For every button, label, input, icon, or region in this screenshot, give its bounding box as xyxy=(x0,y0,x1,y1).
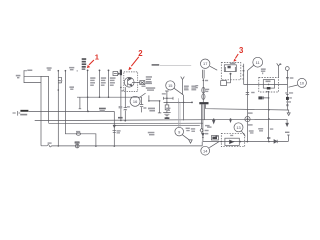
svg-text:3: 3 xyxy=(239,46,244,55)
connector J1 left xyxy=(13,111,21,116)
crystal Y1 box xyxy=(113,72,118,76)
callout circle 13 xyxy=(234,123,243,132)
lamp L2 xyxy=(245,117,250,122)
capacitor C1 xyxy=(58,77,61,83)
labels right of Q1 xyxy=(145,83,152,85)
connector bracket pins xyxy=(242,64,243,85)
wire vertical bus 4 xyxy=(120,69,122,120)
wire W97 xyxy=(77,97,142,109)
red annotations xyxy=(87,46,244,70)
dashed box around Q1 xyxy=(124,72,138,92)
callout circle 11 xyxy=(253,57,263,67)
svg-text:11: 11 xyxy=(256,60,260,65)
connector band xyxy=(199,102,208,104)
wire vertical bus 1 xyxy=(57,71,59,146)
resistor chain R3 xyxy=(108,70,110,97)
lamp chain right xyxy=(285,67,289,71)
red arrow 1 xyxy=(89,60,94,65)
wire below Q1 with capacitor xyxy=(124,87,127,121)
antenna Y2 xyxy=(181,77,185,95)
arrow on corner vertical xyxy=(113,125,115,127)
motor symbol xyxy=(224,65,236,72)
wire vertical right chain xyxy=(267,92,270,142)
callout circle 15 xyxy=(166,81,175,90)
IC U2 xyxy=(263,80,274,89)
diode D3 xyxy=(258,96,262,99)
arrow down small at 230.5 xyxy=(230,120,232,122)
left labels xyxy=(16,75,21,77)
wire bottom rail xyxy=(41,142,202,146)
node dots bus tops xyxy=(58,70,60,72)
wire vertical from 11 xyxy=(246,71,248,142)
wire rail A left xyxy=(29,111,115,146)
callout circle 9 xyxy=(175,127,184,136)
wire rail C2 xyxy=(114,124,200,126)
node bracket 12V xyxy=(149,95,161,113)
junction dot on rail A xyxy=(87,111,89,113)
junction dots rails xyxy=(213,118,215,120)
tiny text label blobs xyxy=(16,58,294,144)
ground arrow 2 xyxy=(286,119,288,123)
circle numbers xyxy=(133,60,305,153)
ground arrow 1 xyxy=(287,113,290,116)
dashed box motor xyxy=(221,63,241,80)
wire rail B xyxy=(35,119,287,120)
svg-text:9: 9 xyxy=(178,129,180,134)
resistor chain R1 xyxy=(87,70,89,112)
diamond xyxy=(200,128,203,132)
lamp symbol on bottom rail xyxy=(75,144,79,148)
resistor R9 box xyxy=(165,105,169,110)
svg-text:1: 1 xyxy=(95,52,100,61)
wire gray vertical xyxy=(179,98,180,127)
svg-text:14: 14 xyxy=(203,148,208,153)
fuse box below xyxy=(221,81,227,86)
callout circle 16 xyxy=(130,96,140,106)
svg-text:16: 16 xyxy=(133,99,137,104)
capacitor on W97 end xyxy=(140,97,143,112)
component box above wire xyxy=(211,136,218,140)
red arrow 2 xyxy=(131,57,139,66)
junction dots on bottom rail xyxy=(58,145,60,147)
svg-text:17: 17 xyxy=(203,61,207,66)
wire triple drop 3 xyxy=(204,104,206,119)
resistor bridge xyxy=(164,97,174,100)
callout circle 17 xyxy=(201,59,210,68)
svg-text:13: 13 xyxy=(236,125,240,130)
fuse oval 2 xyxy=(202,94,205,100)
svg-text:2: 2 xyxy=(138,49,143,58)
bottom wire xyxy=(203,135,290,141)
label tick xyxy=(262,72,264,74)
node V input stub xyxy=(24,70,27,83)
capacitor on chain xyxy=(246,93,249,95)
antenna Y3 xyxy=(277,63,281,77)
labels near ground chain xyxy=(162,93,166,94)
wire node line xyxy=(164,101,193,103)
component oval on wire xyxy=(76,132,80,135)
labels bottom center xyxy=(117,130,121,131)
switch S1 squiggle xyxy=(47,145,51,147)
dashed box op-amp xyxy=(259,77,279,92)
red arrow 3 xyxy=(235,54,238,59)
labels chain 17 xyxy=(205,80,208,81)
wire stub to C rail xyxy=(24,76,49,123)
dashed box transistor xyxy=(221,133,244,146)
wire vertical bus 2 xyxy=(65,71,96,147)
wire chain from 17 xyxy=(203,70,205,102)
diode on bottom wire xyxy=(274,140,277,143)
arrow down solid at 213.7 xyxy=(213,120,215,123)
labels right of circle 9 xyxy=(186,128,190,129)
capacitor C2 box xyxy=(140,81,145,85)
wire rail A right xyxy=(206,104,289,113)
junction dots on W97 xyxy=(87,96,89,98)
wire triple drop 2 xyxy=(202,104,204,141)
wire gray leader line xyxy=(160,64,191,66)
dense dark block left of arrow1 xyxy=(82,58,87,70)
wire triple drop 1 xyxy=(201,104,203,128)
callout circle 10 xyxy=(297,78,306,87)
wire through op-amp box xyxy=(244,84,288,86)
two column labels right of antenna xyxy=(184,86,189,87)
wire rail C1 xyxy=(49,122,203,125)
wire vertical to rail B xyxy=(183,95,185,121)
svg-text:10: 10 xyxy=(300,81,305,86)
transistor Q1 xyxy=(124,77,134,87)
ground xyxy=(163,110,170,117)
resistor chain R2 xyxy=(99,70,101,97)
input symbol left xyxy=(215,135,218,137)
node rail A label xyxy=(20,110,28,112)
ground chain T-top xyxy=(165,91,169,105)
capacitor C4 ticks on corner vertical xyxy=(113,131,117,133)
svg-text:15: 15 xyxy=(168,83,172,88)
resistor chain labels xyxy=(90,77,95,79)
arrow open triangle xyxy=(189,140,192,143)
callout circle 14 xyxy=(201,146,210,155)
wire stub to bottom rail xyxy=(24,76,49,146)
12 VDC labels xyxy=(148,108,155,110)
fuse oval 1 xyxy=(202,87,205,93)
wire Q1 output xyxy=(132,81,140,83)
labels right chain xyxy=(248,112,253,113)
